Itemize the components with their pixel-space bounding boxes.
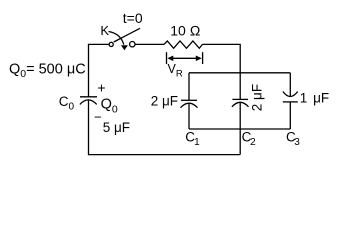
wire C1 to bottom rail: [188, 103, 190, 129]
svg-text:+: +: [97, 79, 105, 95]
wire C2 to bottom rail: [239, 103, 241, 130]
bottom return wire: [89, 154, 241, 156]
capacitor C2 2uF: [232, 99, 249, 106]
svg-text:t=0: t=0: [123, 10, 143, 26]
switch K closing arrow: [109, 32, 128, 51]
left vertical wire upper: [88, 44, 90, 96]
svg-text:5 μF: 5 μF: [103, 120, 130, 135]
wire middle branch to bottom wire: [239, 129, 241, 155]
VR measurement arrow: [167, 52, 203, 64]
switch K left contact: [109, 42, 113, 46]
left vertical wire lower: [88, 100, 90, 155]
wire top rail to C1: [188, 73, 190, 100]
svg-text:C0: C0: [59, 94, 75, 113]
svg-text:C1: C1: [185, 130, 200, 148]
svg-text:Q0= 500 μC: Q0= 500 μC: [9, 61, 86, 80]
svg-text:1 μF: 1 μF: [300, 90, 329, 105]
capacitor C1 2uF: [181, 100, 198, 107]
wire top rail to C3: [289, 73, 291, 97]
bottom rail of capacitor bank: [189, 128, 290, 130]
svg-text:C2: C2: [242, 129, 257, 147]
svg-text:K: K: [100, 23, 109, 38]
wire switch to resistor: [136, 43, 165, 45]
wire C3 to bottom rail: [289, 102, 291, 129]
node top rail junction: [189, 72, 290, 74]
svg-text:10 Ω: 10 Ω: [170, 23, 200, 39]
capacitor C3 1uF: [283, 92, 298, 102]
svg-text:C3: C3: [286, 130, 300, 148]
svg-text:VR: VR: [168, 62, 183, 79]
switch K blade: [114, 28, 140, 42]
switch K right contact: [130, 42, 135, 47]
capacitor C0 5uF: [80, 97, 97, 105]
wire resistor to top-right corner: [203, 44, 241, 99]
svg-text:2 μF: 2 μF: [250, 84, 265, 111]
resistor R 10 ohm zigzag: [164, 41, 203, 48]
svg-text:2 μF: 2 μF: [151, 93, 178, 108]
wire top-left horizontal: [88, 43, 109, 45]
svg-text:Q0: Q0: [101, 97, 118, 116]
svg-text:−: −: [94, 110, 102, 125]
